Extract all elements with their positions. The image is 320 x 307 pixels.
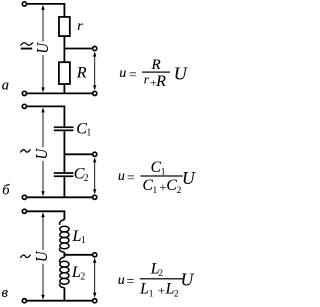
svg-text:2: 2 bbox=[177, 186, 182, 196]
wire mid node to output bbox=[64, 153, 93, 155]
terminal input top-left bbox=[22, 2, 26, 6]
circuit a: resistive voltage divider bbox=[2, 2, 97, 96]
svg-text:2: 2 bbox=[84, 173, 89, 184]
resistor R bbox=[63, 49, 65, 63]
terminal output mid-right bbox=[93, 46, 97, 50]
svg-text:U: U bbox=[174, 63, 188, 83]
terminal input bottom-left bbox=[22, 91, 26, 95]
wire bottom rail bbox=[27, 196, 93, 198]
wire L1 to mid node bbox=[63, 252, 65, 255]
svg-text:1: 1 bbox=[86, 128, 91, 139]
label U bbox=[33, 147, 51, 159]
svg-text:r: r bbox=[77, 19, 83, 34]
svg-text:2: 2 bbox=[80, 272, 85, 283]
svg-text:L: L bbox=[165, 280, 175, 297]
inductor L2 bbox=[63, 255, 65, 257]
label U bbox=[33, 250, 51, 262]
terminal output mid-right bbox=[93, 253, 97, 257]
terminal input bottom-left bbox=[22, 299, 26, 303]
source symbol (tilde over bar) bbox=[21, 43, 33, 45]
wire top rail bbox=[27, 4, 65, 17]
svg-text:u: u bbox=[118, 273, 125, 288]
formula 2: u = C1/(C1+C2)U bbox=[118, 159, 196, 196]
wire C1 to mid node bbox=[63, 131, 65, 154]
formula 3: u = L2/(L1+L2)U bbox=[118, 261, 195, 300]
wire bottom rail bbox=[27, 300, 93, 302]
svg-text:а: а bbox=[2, 78, 9, 94]
svg-text:U: U bbox=[34, 41, 52, 53]
capacitor C1 bbox=[54, 126, 74, 128]
terminal input bottom-left bbox=[22, 195, 26, 199]
inductor L1 bbox=[60, 220, 65, 225]
terminal output mid-right bbox=[93, 152, 97, 156]
label U bbox=[34, 41, 52, 53]
svg-text:r: r bbox=[144, 72, 150, 87]
svg-text:U: U bbox=[33, 250, 51, 262]
source symbol (ac tilde) bbox=[21, 255, 31, 257]
arrow output u bbox=[94, 159, 96, 193]
terminal output bottom-right bbox=[93, 299, 97, 303]
arrow voltage U bbox=[42, 214, 44, 250]
svg-text:б: б bbox=[2, 182, 10, 198]
svg-text:u: u bbox=[118, 169, 125, 184]
resistor r bbox=[59, 17, 70, 36]
arrow voltage U bbox=[42, 109, 44, 147]
svg-text:в: в bbox=[2, 285, 9, 301]
svg-text:R: R bbox=[155, 73, 166, 90]
svg-text:1: 1 bbox=[153, 186, 158, 196]
wire top rail bbox=[27, 106, 65, 126]
terminal input top-left bbox=[22, 104, 26, 108]
wire mid node to output bbox=[64, 48, 93, 50]
wire R to bottom rail bbox=[63, 84, 65, 93]
svg-text:+: + bbox=[158, 283, 165, 298]
terminal output bottom-right bbox=[93, 91, 97, 95]
terminal output bottom-right bbox=[93, 195, 97, 199]
source symbol (ac tilde) bbox=[21, 150, 31, 152]
wire top rail bbox=[27, 211, 65, 220]
svg-text:1: 1 bbox=[81, 235, 86, 246]
arrow output u bbox=[94, 259, 96, 296]
svg-text:U: U bbox=[33, 147, 51, 159]
wire L2 to bottom rail bbox=[63, 288, 65, 301]
circuit b: capacitive voltage divider bbox=[2, 104, 97, 199]
svg-text:u: u bbox=[119, 66, 126, 81]
wire bottom rail bbox=[27, 92, 93, 94]
svg-text:L: L bbox=[139, 280, 149, 297]
svg-text:=: = bbox=[129, 68, 137, 83]
svg-text:=: = bbox=[127, 171, 135, 186]
wire r to mid node bbox=[63, 36, 65, 48]
svg-text:U: U bbox=[182, 168, 196, 188]
capacitor C2 bbox=[63, 154, 65, 172]
svg-text:=: = bbox=[127, 275, 135, 290]
svg-text:2: 2 bbox=[158, 269, 163, 279]
circuit v: inductive voltage divider bbox=[2, 209, 97, 303]
formula 1: u = R/(r+R)U bbox=[119, 57, 188, 90]
svg-text:R: R bbox=[76, 64, 87, 81]
wire mid node to output bbox=[64, 254, 93, 256]
wire C2 to bottom rail bbox=[63, 177, 65, 197]
arrow output u bbox=[94, 53, 96, 89]
svg-text:1: 1 bbox=[149, 289, 154, 299]
terminal input top-left bbox=[22, 209, 26, 213]
arrow voltage U bbox=[42, 7, 44, 42]
svg-text:R: R bbox=[151, 57, 161, 73]
svg-text:U: U bbox=[181, 270, 195, 290]
svg-text:2: 2 bbox=[174, 289, 179, 299]
